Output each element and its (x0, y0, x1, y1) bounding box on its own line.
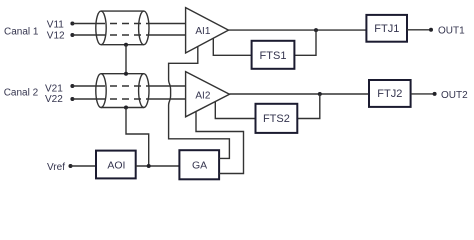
op-amp AI1 (186, 8, 229, 53)
svg-text:OUT2: OUT2 (441, 90, 468, 101)
wire V21 conductor dashed inside W2 (98, 85, 147, 87)
wire W1 shield to W2 shield (125, 45, 127, 74)
terminal dot OUT2 (433, 92, 437, 96)
wire V12 to cable W1 (72, 34, 98, 36)
svg-text:GA: GA (192, 160, 207, 172)
shielded cable W2 cylinder body (96, 74, 149, 108)
svg-text:FTJ1: FTJ1 (374, 23, 399, 35)
svg-text:FTJ2: FTJ2 (377, 88, 402, 100)
wire AI1 output junction down to FTS1 input (294, 30, 316, 55)
wire V11 conductor dashed inside W1 (98, 23, 147, 25)
wire V22 conductor dashed inside W2 (98, 98, 147, 100)
wire V12 conductor dashed inside W1 (98, 34, 147, 36)
svg-text:AI1: AI1 (195, 26, 210, 37)
wire AI1 output to FTJ1 (229, 29, 367, 31)
filter FTS1 (252, 41, 295, 69)
filter FTJ2 (369, 80, 411, 107)
op-amp AI2 (186, 72, 230, 117)
svg-text:V21: V21 (45, 83, 63, 94)
svg-text:Canal 1: Canal 1 (4, 26, 39, 37)
svg-text:V11: V11 (47, 20, 64, 31)
wire FTS1 output to AI1 feedback (213, 38, 251, 55)
wire W1 to AI1 input 1 (147, 23, 186, 25)
svg-text:FTS2: FTS2 (263, 113, 290, 125)
svg-text:V12: V12 (47, 31, 65, 42)
junction dot AI1 output (314, 28, 318, 32)
svg-text:Canal 2: Canal 2 (4, 88, 39, 99)
wire V22 to cable W2 (72, 98, 98, 100)
wire W1 to AI1 input 2 (147, 34, 186, 36)
terminal dot OUT1 (429, 28, 433, 32)
junction dot W2 shield bottom (124, 106, 128, 110)
svg-text:AI2: AI2 (195, 90, 210, 101)
wire AOI to GA (136, 165, 180, 167)
wire FTJ2 to OUT2 (411, 93, 435, 95)
terminal dot Vref (69, 164, 73, 168)
junction dot W2 shield top (124, 72, 128, 76)
filter FTJ1 (366, 15, 407, 42)
svg-text:OUT1: OUT1 (438, 25, 465, 36)
wire W2 to AI2 input 2 (147, 98, 186, 100)
wire V11 to cable W1 (72, 23, 98, 25)
terminal dot V21 (70, 84, 74, 88)
shielded cable W1 cylinder body (96, 11, 149, 45)
wire FTS2 output to AI2 feedback (215, 102, 255, 119)
wire W2 to AI2 input 1 (147, 85, 186, 87)
svg-text:AOI: AOI (107, 160, 125, 172)
junction dot W1 shield (124, 43, 128, 47)
svg-text:V22: V22 (45, 94, 63, 105)
block AOI (96, 151, 136, 179)
terminal dot V12 (70, 33, 74, 37)
wire W2 shield down to Vref node (126, 108, 149, 167)
svg-text:FTS1: FTS1 (260, 50, 287, 62)
wire V21 to cable W2 (72, 85, 98, 87)
wire AI2 output to FTJ2 (230, 93, 370, 95)
wire AI2 output junction down to FTS2 input (297, 94, 320, 119)
junction dot AI2 output (318, 92, 322, 96)
wire GA control to AI1 with crossover jog (169, 46, 230, 158)
junction dot AOI output (147, 164, 151, 168)
wire GA control to AI2 (196, 112, 244, 174)
wire Vref to AOI (71, 165, 97, 167)
terminal dot V22 (70, 97, 74, 101)
svg-text:Vref: Vref (47, 162, 65, 173)
block GA (179, 150, 219, 179)
terminal dot V11 (70, 22, 74, 26)
filter FTS2 (256, 104, 298, 133)
wire FTJ1 to OUT1 (407, 29, 431, 31)
